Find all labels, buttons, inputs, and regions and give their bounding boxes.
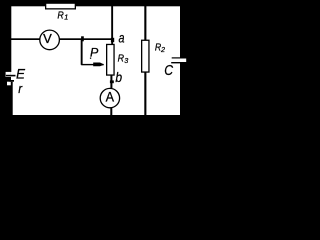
- wire top horizontal: [11, 5, 180, 7]
- node b junction dot: [110, 80, 114, 83]
- wire b vertical: [110, 75, 112, 88]
- svg-text:b: b: [115, 69, 122, 85]
- wire branch R2 lower: [144, 72, 146, 115]
- svg-text:a: a: [119, 30, 125, 46]
- capacitor C top plate: [172, 57, 180, 58]
- wiper arrowhead P: [93, 63, 103, 67]
- white scan area: [11, 5, 180, 116]
- battery E short plate: [9, 80, 14, 82]
- wire branch R2 upper: [144, 5, 146, 41]
- svg-text:C: C: [164, 63, 173, 79]
- ammeter A: [100, 88, 119, 107]
- svg-text:A: A: [106, 89, 115, 105]
- svg-text:2: 2: [160, 45, 165, 54]
- battery E white notch in margin: [6, 72, 11, 77]
- svg-text:3: 3: [124, 56, 128, 65]
- capacitor C white notch in margin: [180, 59, 186, 63]
- wire branch a vertical: [111, 5, 113, 45]
- battery E long plate: [6, 75, 16, 77]
- node junction on V wire: [81, 36, 84, 41]
- wire voltmeter horizontal: [11, 38, 113, 40]
- wire wiper horizontal: [81, 64, 104, 65]
- svg-text:1: 1: [64, 12, 68, 21]
- resistor R2: [142, 40, 149, 72]
- svg-text:V: V: [43, 31, 52, 46]
- battery E lower white notch in margin: [7, 82, 11, 86]
- wire wiper vertical: [81, 40, 83, 65]
- wire below ammeter: [110, 108, 112, 116]
- voltmeter V: [40, 30, 60, 50]
- P stem serif artifact: [90, 58, 91, 59]
- svg-text:r: r: [18, 81, 22, 96]
- black page background: [0, 0, 192, 166]
- wire left vertical upper: [10, 5, 13, 73]
- resistor R3: [107, 44, 114, 75]
- wire left vertical lower: [11, 82, 13, 116]
- svg-text:P: P: [90, 46, 98, 60]
- capacitor C bottom plate: [171, 62, 180, 63]
- resistor R1: [46, 3, 76, 9]
- node a junction dot: [111, 38, 114, 42]
- svg-text:E: E: [16, 66, 26, 82]
